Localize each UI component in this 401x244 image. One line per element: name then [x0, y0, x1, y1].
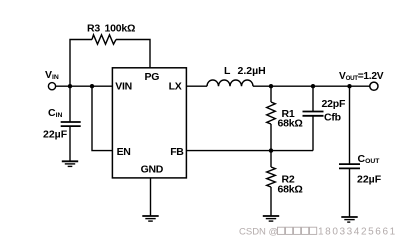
svg-text:LX: LX — [169, 81, 182, 93]
capacitor Cfb — [303, 86, 346, 150]
svg-text:L: L — [224, 65, 231, 77]
node junction on VIN rail (R3/CIN tap) — [68, 84, 72, 88]
svg-text:FB: FB — [170, 146, 184, 158]
svg-text:VIN: VIN — [115, 81, 132, 93]
svg-text:VIN: VIN — [45, 69, 59, 81]
ground (CIN) — [62, 161, 78, 166]
ground (COUT) — [341, 217, 357, 222]
svg-text:R3: R3 — [87, 23, 100, 35]
ground (IC GND) — [142, 216, 158, 221]
svg-text:18033425661: 18033425661 — [318, 227, 397, 238]
svg-text:GND: GND — [141, 163, 164, 175]
wire EN leg — [92, 86, 112, 150]
node junction feedback (R1/R2/Cfb) — [269, 148, 273, 152]
resistor R1 — [267, 86, 303, 150]
svg-text:CIN: CIN — [48, 107, 62, 119]
node junction output rail (Cfb tap) — [311, 84, 315, 88]
inductor L — [207, 65, 266, 86]
node junction on VIN rail (EN tap) — [90, 84, 94, 88]
svg-text:22µF: 22µF — [357, 173, 382, 185]
node junction output rail (COUT tap) — [347, 84, 351, 88]
op-amp U1 (buck converter IC) — [112, 68, 186, 178]
svg-text:100kΩ: 100kΩ — [105, 23, 136, 35]
svg-text:22pF: 22pF — [322, 98, 346, 110]
capacitor COUT — [339, 86, 382, 217]
svg-text:68kΩ: 68kΩ — [278, 118, 303, 130]
svg-text:VOUT=1.2V: VOUT=1.2V — [339, 71, 384, 82]
terminal VIN — [45, 69, 59, 90]
wire GND pin leg — [150, 178, 152, 216]
wire LX to inductor — [186, 85, 207, 87]
wire FB to feedback node — [186, 150, 313, 152]
wire R3 left leg — [70, 40, 92, 87]
wire R3 right leg to PG — [116, 40, 150, 68]
svg-text:2.2µH: 2.2µH — [238, 65, 266, 77]
svg-text:Cfb: Cfb — [324, 111, 341, 123]
resistor R2 — [267, 151, 303, 216]
watermark text — [239, 227, 397, 238]
svg-text:22µF: 22µF — [43, 129, 68, 141]
wire output rail — [253, 85, 370, 87]
svg-text:EN: EN — [117, 146, 131, 158]
node junction output rail (R1 tap) — [269, 84, 273, 88]
resistor R3 — [87, 23, 135, 45]
svg-text:PG: PG — [145, 71, 160, 83]
svg-text:COUT: COUT — [358, 153, 381, 165]
svg-text:CSDN @: CSDN @ — [239, 227, 278, 238]
svg-text:68kΩ: 68kΩ — [278, 184, 303, 196]
ground (R2) — [263, 216, 279, 221]
wire VIN rail — [56, 85, 113, 87]
capacitor CIN — [43, 86, 81, 161]
terminal VOUT — [339, 71, 384, 90]
